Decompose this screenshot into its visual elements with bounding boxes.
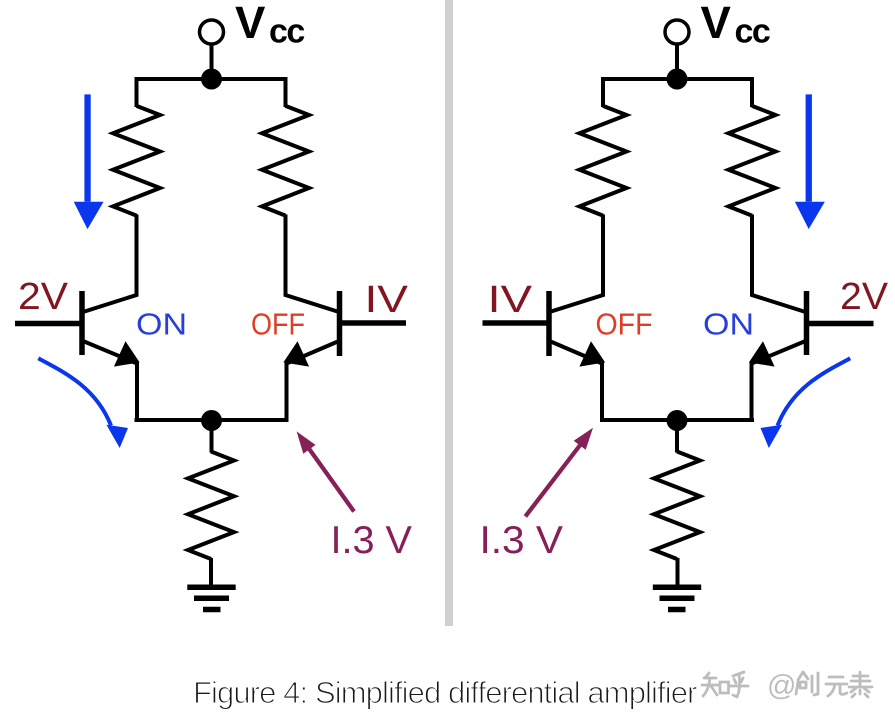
svg-text:cc: cc (269, 13, 304, 51)
svg-text:V: V (701, 0, 732, 48)
svg-text:OFF: OFF (596, 307, 653, 342)
svg-text:I.3 V: I.3 V (331, 519, 413, 562)
svg-text:Figure 4: Simplified differen: Figure 4: Simplified differential amplif… (193, 675, 697, 710)
svg-text:2V: 2V (18, 276, 69, 318)
svg-text:OFF: OFF (251, 307, 305, 342)
svg-text:IV: IV (365, 279, 409, 321)
svg-text:V: V (235, 0, 266, 48)
svg-text:@: @ (767, 670, 796, 702)
svg-text:IV: IV (488, 279, 533, 321)
svg-text:ON: ON (136, 307, 187, 342)
svg-text:2V: 2V (840, 276, 889, 318)
svg-text:ON: ON (703, 307, 754, 342)
svg-text:I.3 V: I.3 V (480, 519, 564, 562)
svg-text:cc: cc (735, 13, 770, 51)
